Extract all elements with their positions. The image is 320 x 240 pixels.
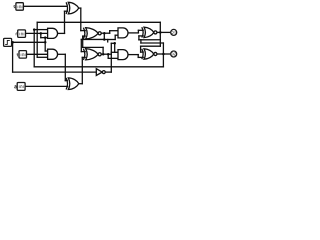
label left of in3 xyxy=(17,53,19,56)
wire into AND1 pin3 xyxy=(41,37,48,39)
junction NOR2 out xyxy=(102,53,105,56)
wire AND2 out xyxy=(58,53,66,55)
wire y39.45 left xyxy=(81,38,104,40)
output pin o1 circle xyxy=(171,29,177,35)
wire XNOR3 out to o1 xyxy=(157,31,171,33)
wire clk vertical x12.6 xyxy=(12,42,14,72)
wire clk horizontal xyxy=(12,41,46,43)
input pin in4 box xyxy=(17,83,25,91)
wire vertical x65.3 to OR2 xyxy=(64,54,66,80)
wire into OR1 pin2 xyxy=(65,10,68,12)
wire vertical x160.3 xyxy=(159,22,161,46)
output pin o2 circle xyxy=(171,51,177,57)
wire in3 to AND2 pin2 xyxy=(27,53,49,55)
junction y39.5 xyxy=(103,38,106,41)
junction x34 y29.6 xyxy=(33,28,36,31)
wire into XNOR4 pin2 xyxy=(138,56,143,58)
or-gate OR2 bottom xyxy=(68,78,79,90)
nor-gate NOR2 bubble xyxy=(98,53,101,56)
wire into OR2 pin1 xyxy=(65,80,67,82)
wire into ANDR2 pin3 xyxy=(108,57,118,59)
wire NOR2 out to ANDR2 pin2 xyxy=(101,53,111,55)
wire OR2 out xyxy=(79,83,83,85)
xor-gate OR1 outer arc xyxy=(66,2,67,14)
nor-gate XNOR3 bubble xyxy=(154,31,157,34)
junction o2 net xyxy=(162,53,165,56)
wire AND1 out xyxy=(58,32,65,34)
wire in2 to AND1 pin2 xyxy=(26,32,49,34)
wire into NOR1 pin1 xyxy=(81,30,85,32)
wire vertical x64.5 to OR1 xyxy=(64,11,66,33)
wire NOR1 out xyxy=(101,32,110,34)
wire ANDR2 out xyxy=(129,54,138,56)
junction NOR1 out xyxy=(103,32,106,35)
wire jog x138.4 xyxy=(137,30,139,33)
junction NOR2 out branch down xyxy=(107,53,110,56)
xnor-gate XNOR3 outer arc xyxy=(142,27,143,37)
input pin in1 box xyxy=(16,3,24,11)
wire XNOR4 out to o2 xyxy=(157,53,171,55)
wire vertical x34 o2 feedback xyxy=(33,30,35,67)
wire vertical x103.1 xyxy=(102,47,104,54)
clock glyph xyxy=(5,40,10,44)
wire into AND2 pin1 xyxy=(45,50,48,52)
and-gate ANDR2 xyxy=(118,50,128,60)
wire into ANDR2 pin1 xyxy=(111,51,118,53)
junction clk x45 xyxy=(44,41,47,44)
inverter NOT clk xyxy=(96,69,102,76)
junction y43.3 xyxy=(113,42,116,45)
wire into ANDR1 pin2 xyxy=(115,34,118,36)
wire stub x140.9 xyxy=(140,40,142,43)
and-gate ANDR1 xyxy=(118,28,128,38)
label left of in4 xyxy=(15,85,17,88)
wire feedback top y22 xyxy=(37,21,160,23)
wire vertical x115.2 xyxy=(114,35,116,39)
xnor-gate XNOR4 outer arc xyxy=(142,49,143,59)
wire into NOR1 pin2 xyxy=(83,35,86,37)
wire vertical x140.6 xyxy=(140,46,142,52)
wire into NOR2 pin1 xyxy=(81,51,85,53)
and-gate AND2 xyxy=(48,49,58,59)
label o2 inside xyxy=(171,53,176,56)
inverter bubble xyxy=(102,71,105,74)
wire long bottom y66.8 xyxy=(34,66,163,68)
label left of in2 xyxy=(16,33,17,35)
nor-gate XNOR4 xyxy=(144,49,154,59)
wire into NOR2 pin2 xyxy=(82,56,85,58)
wire y43.0 xyxy=(141,42,164,44)
wire into AND1 pin1 xyxy=(34,29,48,31)
and-gate AND1 xyxy=(48,28,58,38)
wire jog up x109.7 xyxy=(109,31,111,34)
wire ANDR1 out xyxy=(129,32,138,34)
wire into XNOR3 pin2 xyxy=(139,35,143,37)
wire vertical x114.7 xyxy=(114,43,116,52)
input pin in2 box xyxy=(18,30,26,38)
xnor-gate NOR1 outer arc xyxy=(83,28,84,39)
wire clk branch x45.2 xyxy=(44,38,46,51)
xnor-gate NOR2 outer arc xyxy=(83,49,84,60)
wire y43.3 xyxy=(111,42,114,44)
nor-gate NOR2 xyxy=(86,49,98,60)
wire vertical x108.2 xyxy=(107,54,109,58)
label in4 inside xyxy=(19,85,23,88)
wire vertical x163.4 down to y66.8 xyxy=(162,43,164,67)
wire inverter out xyxy=(105,71,111,73)
junction x40.8 y33.4 xyxy=(40,32,43,35)
wire vertical x138.9 xyxy=(138,36,140,40)
nor-gate NOR1 bubble xyxy=(98,32,101,35)
xor-gate OR2 outer arc xyxy=(66,78,67,90)
junction clk at pin xyxy=(11,41,14,44)
junction o1 net xyxy=(159,31,162,34)
wire y39.5 right xyxy=(104,39,115,41)
wire stub x107.7 xyxy=(107,40,109,42)
wire vertical x82.3 xyxy=(81,57,83,83)
wire vertical x81.3 xyxy=(80,39,82,51)
label left of in1 xyxy=(14,6,15,8)
label o1 inside xyxy=(171,31,175,34)
wire in1 to OR1 xyxy=(23,5,66,7)
or-gate OR1 top xyxy=(68,2,79,14)
wire into AND2 pin3 xyxy=(37,56,48,58)
nor-gate NOR1 xyxy=(86,28,98,39)
input pin in3 box xyxy=(19,51,27,59)
wire vertical x104.3 xyxy=(103,33,105,39)
nor-gate XNOR3 xyxy=(144,27,154,37)
wire vertical x80.8 xyxy=(80,8,82,31)
wire vertical x82.7 xyxy=(82,36,84,47)
input pin clk box xyxy=(4,38,12,46)
wire into ANDR1 pin1 xyxy=(110,30,119,32)
wire y39.8 under xyxy=(139,39,160,41)
label in1 inside xyxy=(18,6,22,9)
wire jog x138.2 xyxy=(137,55,139,58)
wire in4 to OR2 pin2 xyxy=(25,85,68,87)
wire OR1 out xyxy=(79,7,81,9)
wire vertical x40.8 xyxy=(40,33,42,37)
label in3 inside xyxy=(21,54,25,57)
label in2 inside xyxy=(20,33,24,36)
nor-gate XNOR4 bubble xyxy=(154,52,157,55)
junction x45.2 y37.65 xyxy=(44,36,47,39)
wire vertical x111.8 clkbar xyxy=(110,43,112,72)
wire clk bottom to inverter xyxy=(13,71,97,73)
wire into XNOR3 pin1 xyxy=(138,29,143,31)
wire y47.4 xyxy=(83,46,103,48)
wire y46.2 xyxy=(141,45,161,47)
wire into XNOR4 pin1 xyxy=(141,51,144,53)
wire vertical x37 xyxy=(36,22,38,57)
